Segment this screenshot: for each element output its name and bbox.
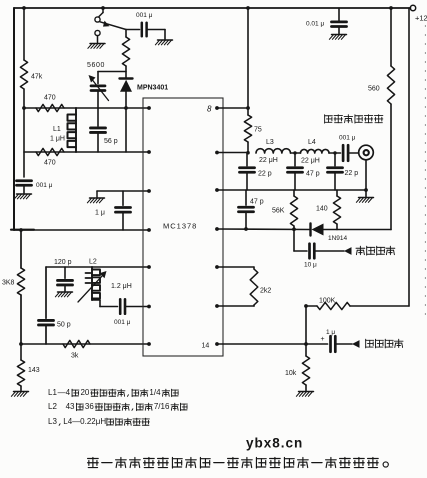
svg-text:1N914: 1N914 [328,235,348,242]
switch throw contact [95,30,100,42]
svg-text:75: 75 [254,127,262,134]
capacitor 10u [304,244,317,269]
svg-text:56 p: 56 p [104,138,118,145]
wire varcap top lead [97,72,99,84]
ground stub 191 [87,191,104,203]
svg-text:560: 560 [368,86,380,93]
wire scan artifact [424,25,426,320]
svg-text:001 μ: 001 μ [339,135,356,142]
terminal audio input arrow [352,340,360,348]
wire 248 column [246,6,250,115]
svg-text:001 μ: 001 μ [114,319,131,326]
resistor 75 [244,115,261,142]
resistor 47k [20,60,42,89]
wire cap to pin306 [125,306,149,308]
svg-text:5600: 5600 [87,62,105,69]
switch lever [100,21,126,30]
capacitor 1u audio [321,329,336,352]
diode 1N914 [311,224,348,243]
junction rail230 bias column [19,228,23,232]
pin dots right [215,106,219,346]
wire pin to filter rail [217,152,248,154]
wire cap to ground [147,30,165,40]
svg-text:2k2: 2k2 [260,288,271,295]
resistor 100K [317,298,350,310]
connector RF output jack [359,145,374,160]
ground 143 [11,392,28,397]
svg-text:—4: —4 [58,388,71,397]
wire corner bracket [11,229,34,231]
svg-text:001 μ: 001 μ [136,12,153,19]
svg-text:50 p: 50 p [57,322,71,329]
svg-text:120 p: 120 p [54,259,72,266]
resistor 143 [17,360,39,386]
ground 120p [55,292,72,297]
svg-text:MC1378: MC1378 [163,222,197,231]
switch pole contact [95,17,100,22]
resistor 5600 [87,37,130,69]
svg-text:3K8: 3K8 [2,280,15,287]
wire jack ground stem [364,160,368,197]
note L3 legend [48,417,149,426]
capacitor 47p mid [288,153,320,190]
diode MPN3401 [120,79,169,109]
svg-text:L1: L1 [53,126,61,133]
wire 5600 bottom [125,66,127,78]
wire rail 267 [46,266,149,268]
wire cap to audio terminal [335,343,352,345]
ground switch throw [88,44,105,49]
wire 143 bottom [20,386,22,391]
caption (CJK) [88,457,389,468]
inductor L4 [301,139,330,165]
wire 47k branch [23,8,25,177]
wire L2 bottom [92,300,118,307]
svg-text:36: 36 [85,402,94,411]
inductor L3 [256,139,291,164]
resistor 2k2 loop [217,267,271,306]
capacitor 50p [39,267,71,344]
capacitor 1u [95,191,131,230]
junction top rail / left border [22,6,26,10]
wire 75 to filter [246,142,250,155]
svg-text:1 μ: 1 μ [326,329,335,336]
note L1 legend [48,388,178,397]
svg-text:001 μ: 001 μ [36,182,53,189]
svg-text:47 p: 47 p [250,199,264,206]
resistor 3K8 [2,268,25,295]
svg-text:47 p: 47 p [306,171,320,178]
resistor 10k [285,356,310,385]
capacitor 22p first [240,153,272,190]
wire rail 229 [217,227,310,231]
label watermark ybx8.cn [246,436,303,451]
junction varactor rail108 [124,106,128,110]
svg-text:MPN3401: MPN3401 [137,85,168,92]
wire 560 bottom [390,104,392,230]
svg-text:+: + [321,336,325,343]
wire 10k stem [305,344,307,356]
inductor L1 [50,108,76,152]
wire switch node down [125,30,127,38]
resistor 3k [63,340,90,359]
svg-text:0.01 μ: 0.01 μ [306,21,324,28]
label audio input (CJK) [366,339,403,348]
ground jack [356,198,373,203]
svg-text:22 μH: 22 μH [301,158,320,165]
wire rail 230 [14,229,149,231]
junction bias/audio rail [19,342,23,346]
resistor 560 [368,66,395,104]
capacitor 56p [91,108,118,152]
wire pin8 out [217,107,248,109]
svg-text:L3: L3 [266,139,274,146]
svg-text:L3: L3 [48,417,57,426]
ground 001u top [155,40,172,45]
pin number 8 [207,105,212,114]
resistor 56K [272,190,298,229]
wire right rail [408,8,410,306]
ground 001u left [14,194,31,199]
svg-text:22 μH: 22 μH [259,157,278,164]
wire to output cap [329,151,341,154]
wire 100K row [306,305,409,307]
svg-text:1.2 μH: 1.2 μH [111,283,132,290]
capacitor 001u L2 [114,299,131,326]
capacitor 001u left [17,181,53,193]
svg-text:22 p: 22 p [345,170,359,177]
wire left border vertical [13,8,15,230]
svg-text:56K: 56K [272,208,285,215]
wire 5600 to varcap [98,71,126,73]
svg-text:L1: L1 [48,388,57,397]
wire 100K down [304,304,308,346]
svg-text:14: 14 [202,343,210,350]
capacitor 001u output [339,135,356,161]
pin dots left [147,106,151,346]
svg-text:L4—0.22μH: L4—0.22μH [63,417,106,426]
wire rail 152 [24,151,149,153]
svg-text:140: 140 [316,206,328,213]
svg-text:L2: L2 [48,402,57,411]
svg-text:L2: L2 [89,259,97,266]
svg-text:7/16: 7/16 [154,402,170,411]
wire bias column upper [20,230,22,268]
wire rail 344 left [21,343,149,345]
wire switch feed [99,8,103,17]
svg-text:10k: 10k [285,370,297,377]
resistor 140 [316,190,341,230]
terminal video input arrow [344,247,352,255]
svg-text:22 p: 22 p [258,171,272,178]
wire filter mid [291,151,301,154]
wire cap to jack [348,152,358,154]
svg-text:10 μ: 10 μ [304,262,317,269]
wire 191 [97,190,149,192]
svg-text:1/4: 1/4 [149,388,161,397]
svg-text:3k: 3k [71,353,79,360]
ground 0.01u [329,35,346,40]
wire 143 stem [20,344,22,360]
inductor L2 [78,259,132,303]
wire diode to 560 [324,229,392,231]
svg-text:1 μ: 1 μ [95,210,105,217]
terminal +12 [410,5,427,22]
wire varactor to rail152 [125,108,127,152]
wire switch node to cap [126,29,140,31]
wire 560 top [389,6,393,66]
capacitor 120p [54,259,73,291]
wire cap to video terminal [314,250,344,252]
svg-text:47k: 47k [31,74,43,81]
svg-text:L4: L4 [308,139,316,146]
wire rail 108 [22,106,149,110]
note L2 legend [48,402,187,411]
variable capacitor [89,75,109,108]
pin number 14 [202,343,210,350]
resistor 470 upper [36,95,64,112]
svg-text:+12: +12 [415,14,427,23]
capacitor 22p third [328,153,359,190]
label RF output (CJK) [325,115,383,123]
capacitor 47p lower [239,190,264,229]
ground 10k [296,392,313,397]
svg-text:8: 8 [207,105,212,114]
resistor 470 lower [36,148,64,166]
svg-text:1 μH: 1 μH [50,136,65,143]
svg-text:ybx8.cn: ybx8.cn [246,436,303,451]
svg-text:470: 470 [44,95,56,102]
wire video branch [294,229,307,251]
wire bias column lower [20,295,22,344]
wire ground rail 190 [217,189,366,191]
op-amp U1 MC1378 body [143,98,223,356]
svg-text:43: 43 [66,402,75,411]
svg-text:20: 20 [80,388,89,397]
capacitor 001u top [136,12,153,36]
svg-text:143: 143 [28,367,40,374]
capacitor 0.01u [306,21,347,34]
wire rail 344 right [217,343,328,345]
wire 10k bottom [305,385,307,391]
wire +12 supply rail [14,7,411,9]
wire 0.01u stem [338,8,340,20]
label video input (CJK) [356,246,395,255]
svg-text:100K: 100K [319,298,336,305]
svg-text:470: 470 [44,160,56,167]
junction switch on rail [101,6,105,10]
